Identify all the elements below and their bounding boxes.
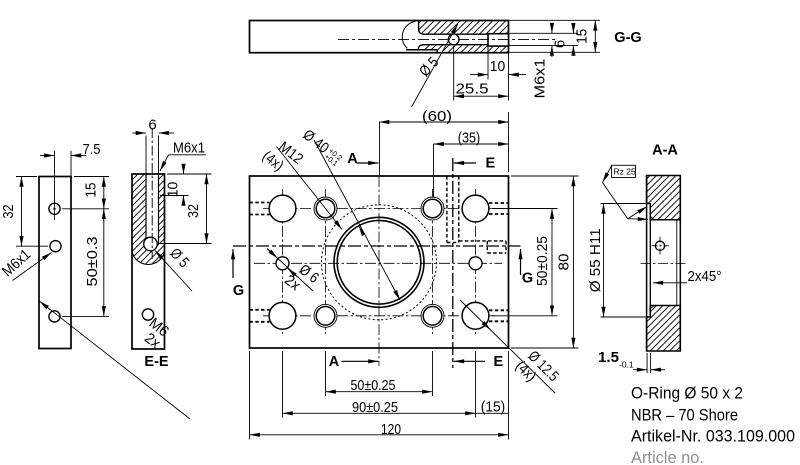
bore edge seen through xyxy=(676,220,678,306)
central bore Ø40 xyxy=(334,217,424,307)
svg-text:A: A xyxy=(329,354,340,370)
svg-text:Artikel-Nr. 033.109.000: Artikel-Nr. 033.109.000 xyxy=(631,427,795,446)
cross hole Ø5 xyxy=(448,34,459,45)
leader Ø5 xyxy=(412,24,458,107)
chamfer edges xyxy=(650,216,654,219)
hatched cut material upper band xyxy=(419,21,508,34)
tapped hole M12 bottom-left xyxy=(314,304,337,327)
svg-text:10: 10 xyxy=(165,182,182,198)
leader M6 2x xyxy=(40,301,191,419)
svg-text:E: E xyxy=(486,155,496,171)
dim 10 xyxy=(487,47,489,80)
plate outline (left side view) xyxy=(39,177,71,349)
plate outline (section G-G) xyxy=(250,21,509,53)
leader Ø12.5 4x xyxy=(460,300,555,393)
dim 50±0.25 bottom xyxy=(326,391,433,393)
centerline xyxy=(641,263,688,265)
dim Ø55 H11 xyxy=(601,203,646,205)
section arrow E bottom xyxy=(454,360,485,362)
spot-face shelf xyxy=(406,49,437,51)
centerline xyxy=(338,38,556,40)
svg-text:25.5: 25.5 xyxy=(456,81,489,98)
left face edge xyxy=(646,176,648,352)
dim 7.5 xyxy=(54,151,56,203)
svg-text:32: 32 xyxy=(0,205,17,219)
dim M6x1 xyxy=(551,23,553,34)
label Ø40 +0.2 +0.1 xyxy=(299,126,345,168)
svg-text:15: 15 xyxy=(83,183,100,198)
svg-text:(15): (15) xyxy=(481,398,506,415)
counterbore Ø55 dotted xyxy=(322,205,437,320)
hidden vertical hole at E xyxy=(446,176,448,243)
thread extension lines xyxy=(145,136,147,175)
svg-text:G: G xyxy=(233,283,244,299)
centerline hole column 4 xyxy=(475,189,477,334)
drill end contour xyxy=(419,21,424,34)
hole Ø6 right xyxy=(469,257,482,270)
svg-text:6: 6 xyxy=(552,40,569,48)
section arrow A top xyxy=(357,162,379,164)
dim 6 xyxy=(133,132,147,134)
leader Ø6 2x xyxy=(267,249,313,292)
svg-text:M6x1: M6x1 xyxy=(0,246,34,280)
hatched block top xyxy=(647,176,681,220)
dim 32 xyxy=(190,173,212,175)
section arrow A bottom xyxy=(342,360,379,362)
svg-text:6: 6 xyxy=(148,117,156,134)
centerline vertical (cut A) xyxy=(379,122,381,176)
dim 50±0.3 xyxy=(62,315,109,317)
dim 6 xyxy=(572,24,574,34)
cross hole Ø5 xyxy=(655,241,664,250)
section arrow E top xyxy=(454,162,476,164)
drilled passage Ø5 xyxy=(423,33,508,35)
svg-text:1.5: 1.5 xyxy=(598,349,619,366)
section arrow G right xyxy=(520,249,522,275)
right face edge xyxy=(679,176,681,352)
svg-text:Ø 55 H11: Ø 55 H11 xyxy=(587,228,604,292)
dim 32 xyxy=(16,176,37,178)
tapped hole slot xyxy=(146,172,159,244)
cutting plane E-E xyxy=(452,158,454,368)
svg-text:A-A: A-A xyxy=(652,143,678,159)
svg-text:10: 10 xyxy=(490,58,506,75)
dim 90±0.25 xyxy=(283,412,476,414)
centerline hole column 2 xyxy=(325,189,327,334)
tapped hole M12 top-left xyxy=(314,197,337,220)
corner hole Ø12.5 bottom-left xyxy=(269,302,296,329)
centerline hole row top xyxy=(263,208,495,210)
dim 1.5 -0.1 xyxy=(646,353,648,373)
leader M6x1 xyxy=(169,154,207,156)
hidden pocket right xyxy=(459,240,506,242)
dim 80 xyxy=(511,175,579,177)
svg-text:90±0.25: 90±0.25 xyxy=(352,399,398,416)
cross hole Ø5 xyxy=(144,237,158,251)
svg-text:E-E: E-E xyxy=(144,354,169,370)
leader Ø40 diameter xyxy=(314,140,400,300)
svg-text:120: 120 xyxy=(381,421,401,438)
hidden port lines top-right xyxy=(489,202,509,204)
dim (15) xyxy=(476,412,509,414)
svg-text:50±0.3: 50±0.3 xyxy=(84,237,101,287)
surface finish Rz 25 xyxy=(612,165,636,177)
svg-text:G: G xyxy=(522,271,533,287)
corner hole Ø12.5 top-left xyxy=(269,195,296,222)
plate outline (section E-E) xyxy=(132,174,165,349)
leader Ø5 xyxy=(155,251,192,292)
dim 15 xyxy=(510,19,601,21)
svg-text:Ø 5: Ø 5 xyxy=(416,54,442,80)
svg-text:32: 32 xyxy=(185,204,202,218)
extension lines bottom xyxy=(325,351,327,396)
tapped hole M12 top-right xyxy=(421,197,444,220)
svg-text:2x45°: 2x45° xyxy=(688,268,722,285)
centerline hole row bottom xyxy=(263,315,495,317)
hole Ø6 left xyxy=(276,257,289,270)
centerline hole column 1 xyxy=(282,189,284,334)
hole M6x1 middle xyxy=(50,241,61,252)
dim 15 xyxy=(74,176,109,178)
counterbore wall arc xyxy=(402,21,415,48)
svg-text:M6x1: M6x1 xyxy=(532,59,549,99)
counterbore floor edge xyxy=(649,204,651,318)
hatched cut material xyxy=(132,174,165,265)
svg-text:Article no.: Article no. xyxy=(631,448,704,465)
svg-text:M6x1: M6x1 xyxy=(173,140,205,157)
leader M12 xyxy=(277,147,343,230)
centerline xyxy=(151,128,153,259)
cutting plane G-G xyxy=(233,245,521,247)
section arrow G left xyxy=(232,249,234,278)
svg-text:50±0.25: 50±0.25 xyxy=(351,377,396,394)
dim (60) xyxy=(508,112,510,172)
counterbore arc xyxy=(132,252,165,265)
thread extension lines xyxy=(510,32,579,34)
svg-text:-0.1: -0.1 xyxy=(619,360,634,370)
svg-text:7.5: 7.5 xyxy=(83,141,101,158)
centerline hole column 3 xyxy=(432,189,434,334)
hatched cut material lower band xyxy=(418,45,508,52)
plate outline (front view) xyxy=(250,176,509,348)
centerline horizontal xyxy=(254,262,502,264)
corner hole Ø12.5 top-right xyxy=(462,195,489,222)
tapped hole M6x1 xyxy=(488,34,509,46)
leader M6x1 xyxy=(13,253,52,281)
svg-text:E: E xyxy=(494,354,504,370)
hatched block bottom xyxy=(647,306,681,352)
dim 10 xyxy=(167,173,190,175)
dim 50±0.25 right xyxy=(492,208,558,210)
svg-text:G-G: G-G xyxy=(614,30,641,46)
svg-text:15: 15 xyxy=(574,29,591,44)
hole Ø5 top xyxy=(49,203,60,214)
svg-text:A: A xyxy=(347,151,358,167)
tapped hole M12 bottom-right xyxy=(421,304,444,327)
svg-text:(35): (35) xyxy=(458,130,481,147)
svg-text:O-Ring Ø 50 x 2: O-Ring Ø 50 x 2 xyxy=(631,384,743,403)
hidden port lines top-left xyxy=(250,202,270,204)
svg-text:(60): (60) xyxy=(422,108,452,125)
svg-text:Rz 25: Rz 25 xyxy=(614,167,636,177)
hidden port lines bottom-left xyxy=(250,309,270,311)
corner hole Ø12.5 bottom-right xyxy=(462,302,489,329)
dim 120 xyxy=(250,434,509,436)
hole M6 lower xyxy=(142,309,153,320)
dim 25.5 xyxy=(453,46,455,101)
svg-text:NBR – 70 Shore: NBR – 70 Shore xyxy=(631,405,738,424)
hole M6 bottom xyxy=(49,311,60,322)
svg-text:50±0.25: 50±0.25 xyxy=(534,236,551,286)
hidden port lines bottom-right xyxy=(489,309,509,311)
svg-text:80: 80 xyxy=(556,254,573,271)
dim (35) xyxy=(433,144,435,197)
